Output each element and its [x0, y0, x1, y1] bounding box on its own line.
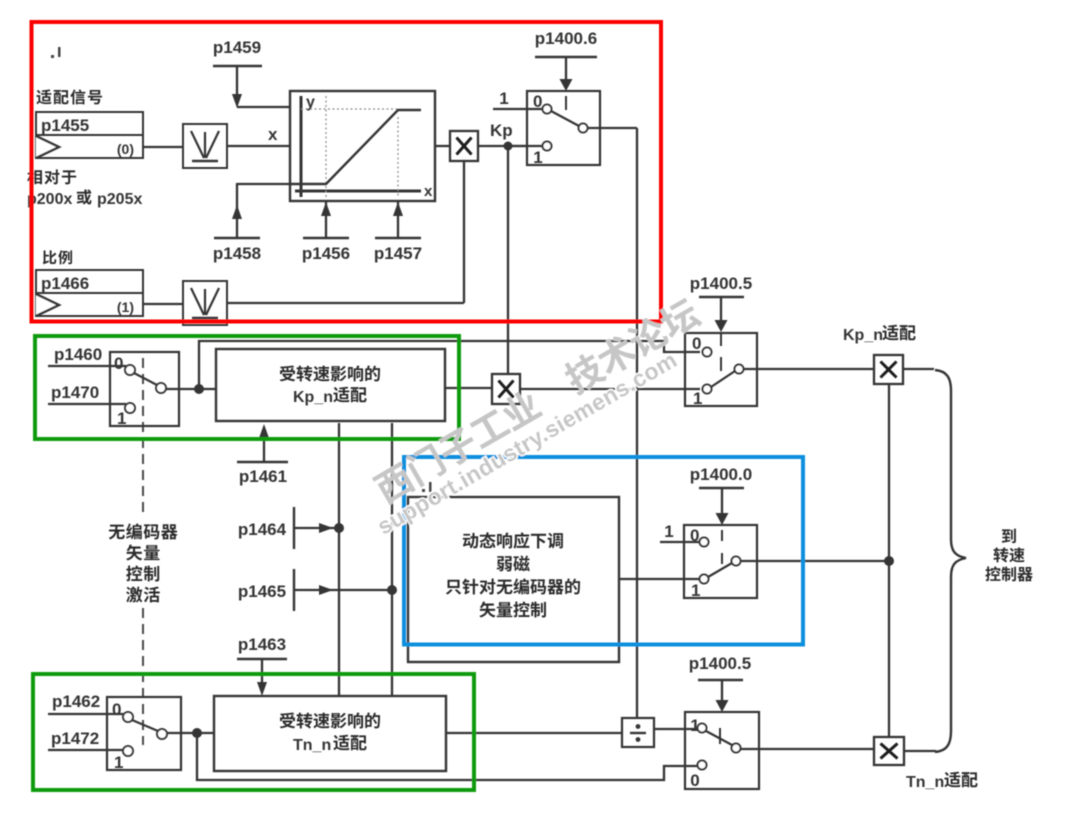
- svg-text:p1465: p1465: [238, 582, 286, 601]
- svg-text:Tn_n: Tn_n: [906, 774, 944, 791]
- svg-text:Tn_n: Tn_n: [293, 737, 331, 754]
- svg-text:p1458: p1458: [213, 244, 261, 263]
- svg-text:p205x: p205x: [97, 191, 142, 208]
- svg-text:p1463: p1463: [238, 635, 286, 654]
- svg-text:p1400.0: p1400.0: [690, 465, 752, 484]
- svg-text:1: 1: [533, 148, 542, 167]
- svg-text:1: 1: [664, 522, 673, 541]
- svg-text:p1400.6: p1400.6: [535, 29, 597, 48]
- svg-text:(0): (0): [117, 141, 134, 157]
- svg-text:p1456: p1456: [302, 244, 350, 263]
- svg-text:p1470: p1470: [51, 383, 99, 402]
- svg-text:0: 0: [112, 700, 121, 719]
- svg-text:0: 0: [692, 334, 701, 353]
- svg-text:Kp: Kp: [490, 121, 513, 140]
- svg-text:x: x: [424, 183, 433, 200]
- svg-text:p200x: p200x: [27, 191, 72, 208]
- svg-text:1: 1: [114, 753, 123, 772]
- svg-text:p1466: p1466: [41, 274, 89, 293]
- svg-text:Kp_n: Kp_n: [293, 389, 333, 406]
- svg-text:p1464: p1464: [238, 520, 287, 539]
- svg-text:0: 0: [114, 354, 123, 373]
- svg-text:x: x: [268, 125, 278, 144]
- svg-text:1: 1: [693, 389, 702, 408]
- svg-text:p1472: p1472: [51, 729, 99, 748]
- svg-text:p1459: p1459: [213, 38, 261, 57]
- svg-text:0: 0: [690, 771, 699, 790]
- svg-text:p1461: p1461: [239, 467, 287, 486]
- svg-text:1: 1: [499, 89, 508, 108]
- svg-text:p1400.5: p1400.5: [689, 654, 751, 673]
- svg-text:(1): (1): [117, 299, 134, 315]
- svg-text:Kp_n: Kp_n: [843, 327, 883, 344]
- svg-text:p1400.5: p1400.5: [690, 274, 752, 293]
- svg-text:0: 0: [690, 526, 699, 545]
- svg-text:1: 1: [117, 409, 126, 428]
- svg-text:p1460: p1460: [54, 345, 102, 364]
- svg-text:p1457: p1457: [374, 244, 422, 263]
- svg-text:p1455: p1455: [41, 116, 89, 135]
- svg-text:1: 1: [691, 581, 700, 600]
- svg-text:p1462: p1462: [52, 692, 100, 711]
